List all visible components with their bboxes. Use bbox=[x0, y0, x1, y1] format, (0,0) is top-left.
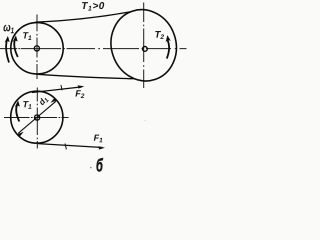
scan speckle bbox=[144, 120, 145, 121]
torque T1 arrow (top figure) bbox=[13, 35, 18, 57]
label b (figure letter) bbox=[97, 158, 104, 172]
pulley circle (free body) bbox=[11, 91, 63, 143]
label T2 bbox=[155, 31, 164, 39]
scan speckle bbox=[90, 167, 92, 169]
omega1 rotation arrow bbox=[5, 36, 10, 63]
torque T1 arrow (free body) bbox=[15, 100, 20, 121]
shaft hub pulley 2 bbox=[143, 47, 148, 52]
wire: vertical dash-dot centerline left pulley bbox=[36, 15, 38, 80]
wire: horizontal dash-dot centerline bottom pulley bbox=[4, 117, 69, 119]
shaft hub (free body) bbox=[35, 115, 40, 120]
wire: vertical dash-dot centerline right pulley bbox=[143, 3, 145, 89]
label d1 (rotated) bbox=[38, 96, 49, 107]
wire: top belt line bbox=[35, 12, 130, 22]
force F2 arrow bbox=[32, 85, 84, 93]
shaft hub pulley 1 bbox=[34, 46, 39, 51]
label T1 (free body) bbox=[23, 101, 31, 109]
pulley 1 (driver) circle bbox=[11, 23, 63, 74]
pulley 2 (driven) circle bbox=[102, 1, 186, 90]
force F1 arrow bbox=[38, 144, 105, 150]
wire: vertical dash-dot centerline bottom pulley bbox=[36, 88, 38, 149]
wire: horizontal dash-dot centerline top figure bbox=[0, 48, 187, 50]
wire: bottom belt line bbox=[36, 74, 134, 79]
diameter dimension line d1 bbox=[17, 97, 57, 137]
label T1 (top figure) bbox=[23, 32, 31, 40]
torque T2 arrow bbox=[166, 35, 171, 58]
label T1>0 bbox=[82, 2, 104, 10]
label omega1 bbox=[3, 25, 13, 33]
label F1 bbox=[94, 135, 103, 143]
label F2 bbox=[75, 90, 84, 98]
